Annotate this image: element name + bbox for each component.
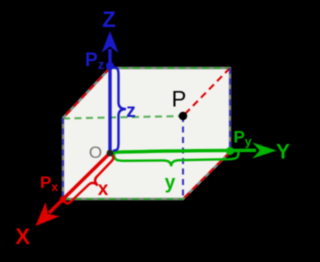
svg-text:z: z xyxy=(126,101,136,122)
wire: blue dashed front-left edge xyxy=(62,118,64,199)
wire: blue dashed front-right edge (below P) xyxy=(182,116,184,199)
svg-text:x: x xyxy=(98,179,109,200)
svg-text:Y: Y xyxy=(276,141,290,164)
node Px (projection on x-axis) xyxy=(60,196,66,202)
svg-text:y: y xyxy=(165,173,176,194)
z-axis shaft (blue) xyxy=(108,49,111,152)
wire: red dashed top-left edge (Pz to front-top-left) xyxy=(63,68,110,118)
wire: blue dashed back-right edge xyxy=(229,68,231,152)
wire: green dashed front-bottom edge (Px to front-bottom-right) xyxy=(63,198,183,200)
node Py (projection on y-axis) xyxy=(226,147,234,155)
svg-text:Pz: Pz xyxy=(85,50,105,72)
svg-text:X: X xyxy=(15,224,30,249)
wire: red dashed top-right edge (back-top-right to P) xyxy=(183,68,230,116)
node O (origin dot) xyxy=(107,150,114,157)
brace z (blue curly brace along z-axis) xyxy=(114,68,126,151)
svg-text:Px: Px xyxy=(40,173,58,194)
wire: green dashed back-top edge (Pz to back-top-right) xyxy=(110,67,230,69)
wire: green dashed front-top edge (through P) xyxy=(63,116,183,119)
svg-text:O: O xyxy=(89,143,102,162)
x-axis shaft (red) xyxy=(49,153,110,213)
svg-text:Z: Z xyxy=(102,7,115,32)
box body (cuboid silhouette) xyxy=(63,68,230,199)
brace y (green curly brace along y-axis) xyxy=(114,153,239,167)
x-axis arrowhead xyxy=(36,202,60,226)
node Pz (projection on z-axis) xyxy=(106,62,114,70)
z-axis arrowhead xyxy=(102,31,119,53)
y-axis arrowhead xyxy=(253,143,277,159)
brace x (red curly brace along x-axis) xyxy=(66,156,114,204)
svg-text:Py: Py xyxy=(234,128,252,149)
node P (point dot) xyxy=(179,112,187,120)
svg-text:P: P xyxy=(172,87,187,112)
wire: red dashed bottom-right edge (Py to front-bottom-right) xyxy=(183,152,230,199)
y-axis shaft (green) xyxy=(110,150,256,152)
